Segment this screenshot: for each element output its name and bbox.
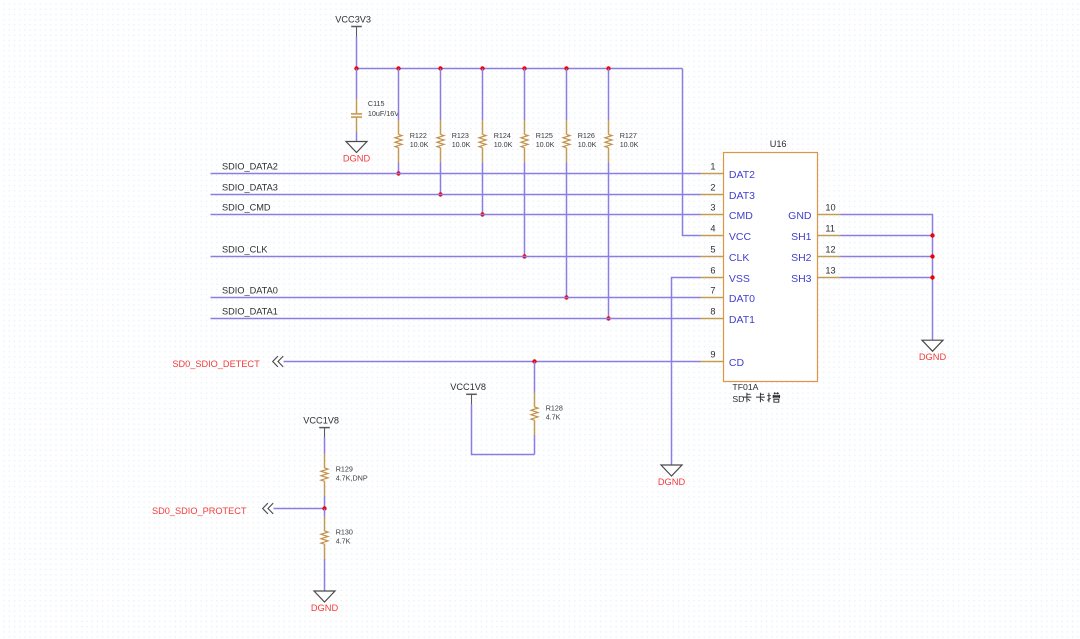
resistor R128 (531, 362, 563, 455)
wire SD0_SDIO_DETECT to U16 pin 9 CD (284, 361, 701, 363)
pin 7 DAT0 (701, 286, 756, 305)
svg-text:7: 7 (710, 286, 715, 296)
power symbol VCC1V8 right (450, 382, 486, 404)
svg-text:R125: R125 (536, 131, 553, 140)
svg-text:SDIO_CMD: SDIO_CMD (222, 203, 271, 213)
pin 10 GND (788, 203, 840, 222)
svg-text:10uF/16V: 10uF/16V (368, 109, 399, 118)
svg-text:4.7K: 4.7K (546, 413, 561, 422)
power symbol VCC1V8 left (303, 415, 339, 437)
net SDIO_DATA2 wire (211, 173, 701, 175)
svg-text:10: 10 (825, 203, 835, 213)
svg-text:R124: R124 (494, 131, 511, 140)
IC U16 body (724, 139, 818, 382)
wire VCC1V8 to R129 (324, 438, 326, 445)
svg-text:13: 13 (825, 266, 835, 276)
svg-text:GND: GND (788, 210, 812, 222)
wire R128 bottom to VCC1V8 (472, 404, 535, 454)
ground DGND under VSS (658, 465, 686, 487)
resistor R124 (479, 69, 513, 215)
junction bus at R122 (396, 66, 400, 70)
svg-text:SDIO_DATA2: SDIO_DATA2 (222, 162, 278, 172)
pin 5 CLK (701, 245, 750, 264)
wire pin 13 SH3 to rail (841, 277, 933, 279)
svg-text:DAT3: DAT3 (729, 190, 755, 202)
net SDIO_CLK wire (211, 256, 701, 258)
net SDIO_DATA0 wire (211, 297, 701, 299)
svg-text:U16: U16 (770, 139, 787, 149)
resistor R125 (521, 69, 555, 257)
svg-text:DAT1: DAT1 (729, 314, 755, 326)
capacitor C115 (351, 69, 399, 142)
junction R127 bottom (606, 316, 610, 320)
svg-text:SD0_SDIO_PROTECT: SD0_SDIO_PROTECT (152, 506, 247, 516)
svg-text:SH1: SH1 (791, 231, 812, 243)
svg-text:CMD: CMD (729, 210, 753, 222)
wire U16 VSS to ground (672, 278, 701, 466)
svg-text:10.0K: 10.0K (620, 140, 639, 149)
svg-text:11: 11 (825, 224, 835, 234)
svg-text:10.0K: 10.0K (536, 140, 555, 149)
junction bus at R125 (522, 66, 526, 70)
junction PROTECT node (322, 506, 326, 510)
junction SH1 rail (930, 233, 934, 237)
resistor R127 (605, 69, 639, 319)
port chevron SD0_SDIO_DETECT (273, 356, 284, 367)
value label SD card slot CJK (732, 392, 779, 404)
svg-text:CD: CD (729, 357, 745, 369)
svg-text:DAT2: DAT2 (729, 169, 755, 181)
svg-text:VSS: VSS (729, 273, 750, 285)
svg-text:R127: R127 (620, 131, 637, 140)
svg-text:R123: R123 (452, 131, 469, 140)
wire SD0_SDIO_PROTECT to node (274, 508, 325, 510)
port chevron SD0_SDIO_PROTECT (263, 503, 274, 514)
svg-text:C115: C115 (368, 99, 385, 108)
pin 2 DAT3 (701, 183, 756, 202)
svg-text:10.0K: 10.0K (494, 140, 513, 149)
svg-text:R128: R128 (546, 403, 563, 412)
svg-text:8: 8 (710, 307, 715, 317)
ground DGND bottom (311, 591, 339, 613)
junction R125 bottom (522, 254, 526, 258)
pin 8 DAT1 (701, 307, 756, 326)
svg-text:SDIO_DATA0: SDIO_DATA0 (222, 286, 278, 296)
power symbol VCC3V3 (335, 14, 371, 36)
svg-text:10.0K: 10.0K (578, 140, 597, 149)
net SDIO_DATA3 wire (211, 194, 701, 196)
svg-text:TF01A: TF01A (732, 382, 758, 392)
svg-text:10.0K: 10.0K (452, 140, 471, 149)
svg-text:CLK: CLK (729, 252, 749, 264)
resistor R130 (321, 509, 353, 592)
junction DETECT wire at R128 (532, 359, 536, 363)
junction R123 bottom (438, 192, 442, 196)
svg-text:VCC1V8: VCC1V8 (450, 382, 486, 392)
resistor R123 (437, 69, 471, 195)
junction SH3 rail (930, 275, 934, 279)
svg-text:VCC1V8: VCC1V8 (303, 415, 339, 425)
svg-text:DGND: DGND (919, 352, 947, 362)
svg-text:12: 12 (825, 245, 835, 255)
svg-text:1: 1 (710, 162, 715, 172)
wire pin 11 SH1 to rail (841, 235, 933, 237)
svg-text:VCC: VCC (729, 231, 752, 243)
svg-text:6: 6 (710, 266, 715, 276)
svg-text:SDIO_DATA1: SDIO_DATA1 (222, 307, 278, 317)
wire VCC3V3 stem (356, 37, 358, 69)
svg-text:R130: R130 (336, 527, 353, 536)
pin 13 SH3 (791, 266, 840, 285)
svg-text:9: 9 (710, 350, 715, 360)
svg-text:DAT0: DAT0 (729, 293, 755, 305)
svg-text:3: 3 (710, 203, 715, 213)
svg-text:SDIO_CLK: SDIO_CLK (222, 245, 268, 255)
svg-text:R129: R129 (336, 464, 353, 473)
svg-text:DGND: DGND (311, 603, 339, 613)
svg-text:SH2: SH2 (791, 252, 812, 264)
ground DGND right rail (919, 340, 947, 362)
pin 11 SH1 (791, 224, 840, 243)
svg-text:10.0K: 10.0K (410, 140, 429, 149)
junction bus at C115 (354, 66, 358, 70)
ground DGND under C115 (343, 142, 371, 164)
junction SH2 rail (930, 254, 934, 258)
svg-text:4.7K,DNP: 4.7K,DNP (336, 474, 368, 483)
pin 4 VCC (701, 224, 752, 243)
svg-text:5: 5 (710, 245, 715, 255)
net SDIO_CMD wire (211, 214, 701, 216)
junction bus at R126 (564, 66, 568, 70)
resistor R129 (321, 445, 368, 509)
svg-text:R122: R122 (410, 131, 427, 140)
junction R126 bottom (564, 295, 568, 299)
junction R124 bottom (480, 212, 484, 216)
pin 6 VSS (701, 266, 750, 285)
junction R122 bottom (396, 171, 400, 175)
junction bus at R127 (606, 66, 610, 70)
svg-text:SDIO_DATA3: SDIO_DATA3 (222, 183, 278, 193)
pin 9 CD (701, 350, 745, 369)
svg-text:SD0_SDIO_DETECT: SD0_SDIO_DETECT (172, 359, 260, 369)
pin 3 CMD (701, 203, 754, 222)
svg-text:VCC3V3: VCC3V3 (335, 14, 371, 24)
resistor R122 (395, 69, 429, 174)
net SDIO_DATA1 wire (211, 318, 701, 320)
pin 1 DAT2 (701, 162, 756, 181)
junction bus at R124 (480, 66, 484, 70)
resistor R126 (563, 69, 597, 298)
junction bus at R123 (438, 66, 442, 70)
svg-text:DGND: DGND (343, 153, 371, 163)
svg-text:SD: SD (732, 394, 744, 404)
wire pin 10 GND to ground rail (841, 215, 933, 341)
wire VCC3V3 bus horizontal (357, 68, 683, 70)
svg-text:DGND: DGND (658, 477, 686, 487)
wire pin 12 SH2 to rail (841, 256, 933, 258)
svg-text:SH3: SH3 (791, 273, 812, 285)
svg-text:2: 2 (710, 183, 715, 193)
svg-text:4: 4 (710, 224, 715, 234)
pin 12 SH2 (791, 245, 840, 264)
wire bus down to U16 pin 4 VCC (683, 69, 701, 236)
svg-text:R126: R126 (578, 131, 595, 140)
svg-text:4.7K: 4.7K (336, 537, 351, 546)
